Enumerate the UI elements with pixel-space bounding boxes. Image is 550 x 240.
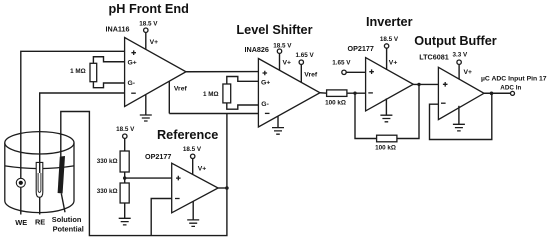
op-amp U4 OP2177 (Inverter) (348, 44, 414, 111)
ground (LTC6081) (453, 106, 465, 131)
supply terminal 18.5 V (inverter V+) (380, 36, 399, 70)
svg-text:Vref: Vref (304, 71, 318, 78)
svg-text:330 kΩ: 330 kΩ (97, 158, 118, 165)
svg-text:V+: V+ (464, 69, 473, 76)
svg-text:1 MΩ: 1 MΩ (70, 68, 86, 75)
beaker (5, 132, 74, 213)
wire feedback up to output (397, 84, 419, 138)
junction divider midpoint (123, 176, 126, 179)
svg-text:1 MΩ: 1 MΩ (203, 91, 219, 98)
svg-text:Reference: Reference (157, 128, 218, 142)
pin Vref (INA116) (169, 81, 187, 113)
svg-text:V+: V+ (198, 165, 207, 172)
electrode WE (16, 178, 25, 214)
svg-text:LTC6081: LTC6081 (419, 53, 448, 62)
resistor R1 1 MOhm (INA116 gain) (70, 57, 124, 88)
svg-text:V+: V+ (283, 59, 292, 66)
svg-text:G-: G- (261, 101, 269, 108)
svg-text:INA116: INA116 (106, 25, 130, 34)
resistor R3 330 kOhm (lower divider) (97, 183, 130, 203)
svg-text:RE: RE (35, 218, 45, 227)
wire solution potential to reference output net (61, 112, 227, 236)
supply terminal 3.3 V (LTC6081 V+) (452, 51, 472, 79)
junction reference output (225, 186, 229, 190)
svg-text:Level Shifter: Level Shifter (236, 23, 312, 37)
electrode RE (36, 162, 43, 214)
leader solution potential (61, 194, 65, 213)
supply terminal 18.5 V (INA116 V+) (139, 21, 158, 50)
svg-text:V+: V+ (389, 59, 398, 66)
svg-text:1.65 V: 1.65 V (332, 59, 351, 66)
svg-text:18.5 V: 18.5 V (139, 21, 158, 28)
svg-text:OP2177: OP2177 (348, 44, 374, 53)
wire reference output (218, 187, 227, 189)
svg-text:Potential: Potential (53, 224, 84, 233)
svg-text:100 kΩ: 100 kΩ (325, 100, 346, 107)
electrode Solution Potential (58, 156, 65, 194)
ground (Reference) (187, 201, 199, 226)
resistor R4 1 MOhm (INA826 gain) (203, 77, 258, 110)
svg-text:G+: G+ (261, 80, 270, 87)
wire reference - feedback (151, 199, 172, 236)
svg-text:18.5 V: 18.5 V (183, 146, 202, 153)
svg-text:OP2177: OP2177 (145, 152, 171, 161)
svg-text:V+: V+ (150, 39, 159, 46)
wire reference output node up to Vref net (226, 114, 228, 189)
wire INA826 output (320, 92, 327, 94)
svg-text:330 kΩ: 330 kΩ (97, 188, 118, 195)
supply terminal 18.5 V (divider) (116, 126, 135, 151)
svg-text:G+: G+ (128, 59, 137, 66)
ground (INA116) (140, 95, 152, 121)
svg-text:ADC In: ADC In (500, 84, 521, 91)
wire + input INA116 to WE (21, 51, 125, 178)
junction inverter summing node (353, 91, 356, 94)
wire INA116 output to INA826 + (186, 71, 258, 73)
svg-text:INA826: INA826 (245, 45, 269, 54)
wire divider midpoint (125, 172, 172, 183)
junction inverter output (417, 83, 420, 86)
resistor R6 100 kOhm (inverter feedback) (375, 135, 397, 151)
svg-text:µC ADC Input Pin 17: µC ADC Input Pin 17 (481, 75, 547, 82)
op-amp U5 LTC6081 (Output Buffer) (419, 53, 484, 120)
ground (divider) (119, 203, 131, 225)
svg-text:3.3 V: 3.3 V (452, 51, 468, 58)
svg-text:18.5 V: 18.5 V (380, 36, 399, 43)
op-amp U3 INA826 (Level Shifter) (245, 45, 321, 127)
svg-text:G-: G- (128, 80, 136, 87)
junction buffer output (490, 92, 494, 96)
op-amp U1 INA116 (106, 25, 187, 107)
wire buffer feedback (430, 93, 492, 139)
supply terminal 18.5 V (INA826 V+) (273, 42, 292, 70)
terminal ADC In (511, 91, 515, 95)
wire Vref net to INA826 - input (169, 113, 258, 115)
op-amp U2 OP2177 (Reference) (145, 152, 218, 213)
terminal 1.65 V (inverter +) (332, 59, 365, 74)
svg-text:WE: WE (15, 218, 27, 227)
svg-text:Vref: Vref (174, 86, 188, 93)
wire feedback down (355, 93, 377, 138)
terminal 1.65 V (INA826 Vref pin) (296, 52, 318, 82)
wire inverter output to buffer (413, 83, 438, 85)
supply terminal 18.5 V (Reference V+) (183, 146, 206, 174)
wire buffer output to ADC terminal (484, 92, 511, 94)
wire - input INA116 to RE (40, 93, 125, 163)
svg-text:18.5 V: 18.5 V (273, 42, 292, 49)
svg-text:pH Front End: pH Front End (109, 2, 189, 16)
ground (inverter) (380, 98, 392, 121)
svg-text:100 kΩ: 100 kΩ (375, 144, 396, 151)
resistor R5 100 kOhm (inverter input) (325, 90, 347, 107)
resistor R2 330 kOhm (upper divider) (97, 151, 130, 172)
svg-text:Solution: Solution (52, 215, 82, 224)
wire resistor to inverter - input (347, 92, 366, 94)
svg-text:18.5 V: 18.5 V (116, 126, 135, 133)
svg-text:1.65 V: 1.65 V (296, 52, 315, 59)
ground (INA826) (272, 116, 284, 134)
svg-text:Inverter: Inverter (366, 15, 413, 29)
svg-text:Output Buffer: Output Buffer (414, 34, 497, 48)
